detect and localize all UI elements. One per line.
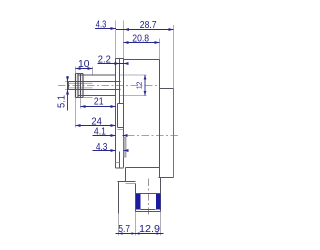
svg-text:4.3: 4.3 [96,19,107,30]
svg-text:4.1: 4.1 [94,127,106,138]
svg-text:4.3: 4.3 [96,142,108,153]
svg-text:10: 10 [78,59,90,70]
svg-text:20.8: 20.8 [132,33,149,44]
svg-text:12.9: 12.9 [139,224,160,235]
svg-text:5.7: 5.7 [118,224,130,235]
svg-text:5.1: 5.1 [56,95,67,108]
svg-text:28.7: 28.7 [140,20,157,31]
svg-text:2.2: 2.2 [98,54,111,65]
svg-text:21: 21 [94,97,104,108]
svg-text:12: 12 [136,82,143,90]
